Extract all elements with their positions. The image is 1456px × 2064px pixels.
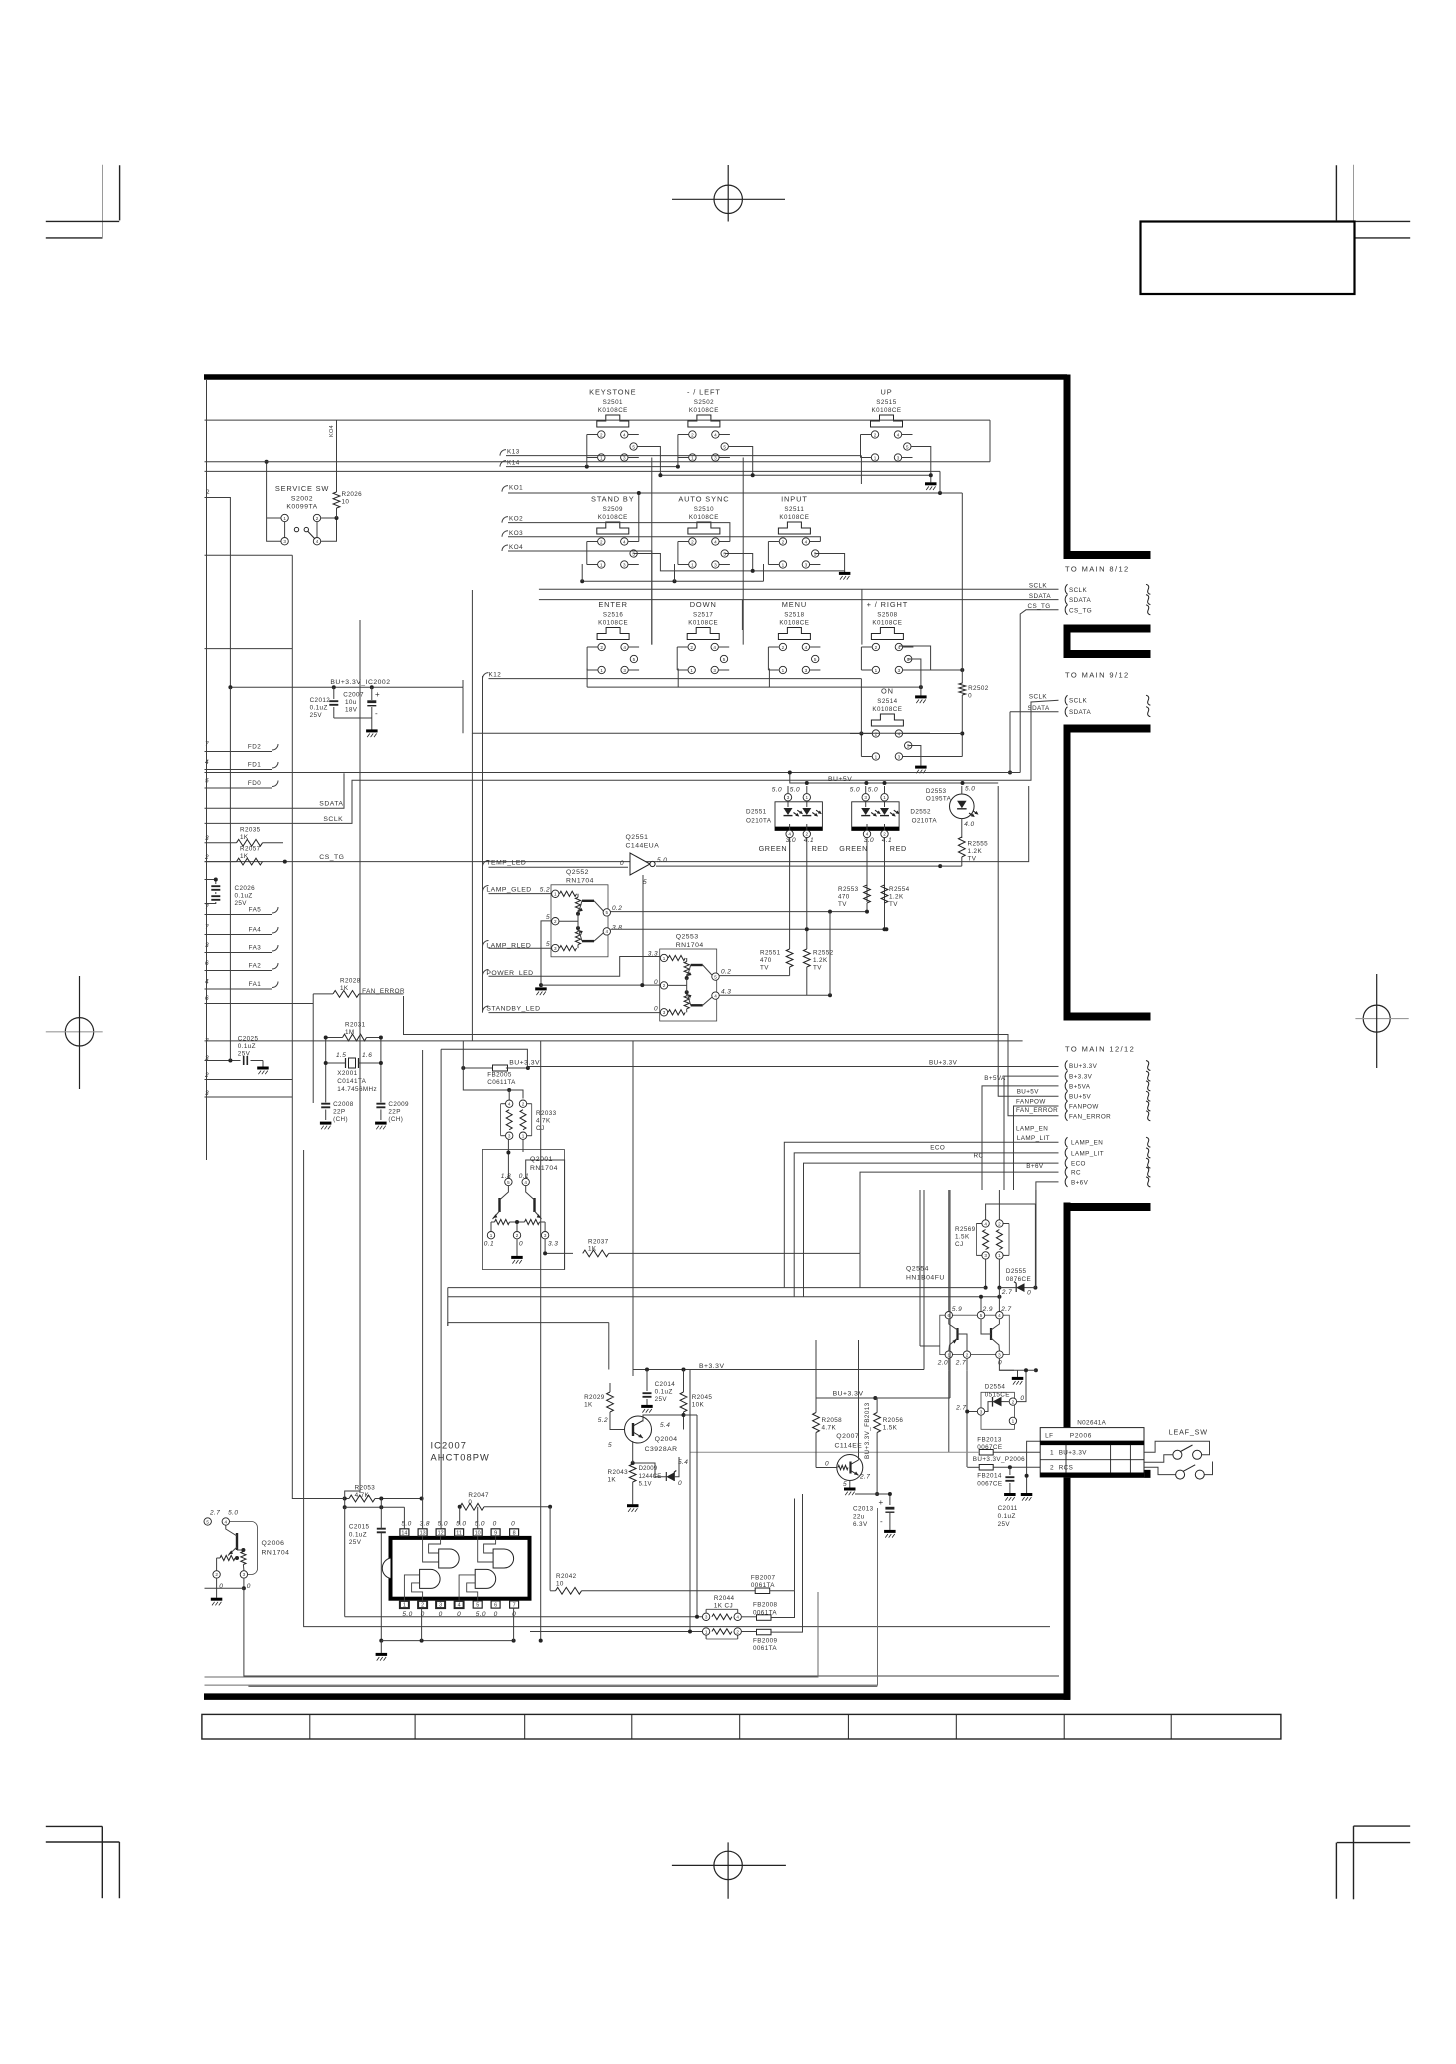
svg-text:FA3: FA3 — [249, 945, 262, 952]
svg-text:Q2554: Q2554 — [906, 1266, 929, 1273]
svg-text:0.1: 0.1 — [484, 1241, 494, 1248]
resistor R2028 FAN_ERROR — [313, 978, 403, 998]
svg-text:2: 2 — [600, 432, 603, 437]
svg-text:Q2007: Q2007 — [836, 1433, 859, 1440]
svg-text:K0108CE: K0108CE — [872, 407, 902, 414]
svg-text:4: 4 — [623, 645, 626, 650]
svg-text:S2517: S2517 — [693, 612, 713, 619]
wire mid verticals — [608, 1323, 610, 1370]
svg-text:2: 2 — [600, 539, 603, 544]
wire ECO to 12/12 — [804, 1163, 1059, 1297]
net TEMP_LED — [483, 859, 629, 867]
svg-text:7: 7 — [513, 1603, 516, 1609]
wire K14 row — [506, 466, 678, 468]
svg-text:0061TA: 0061TA — [753, 1645, 777, 1652]
wire keystone left column down — [586, 458, 588, 467]
svg-text:3: 3 — [243, 1572, 246, 1577]
net hook KO3 — [502, 531, 508, 537]
svg-text:2: 2 — [1012, 1399, 1015, 1404]
net STANDBY_LED — [483, 1006, 661, 1013]
wire b33 to right — [923, 1190, 925, 1370]
wire Q2552 pin4 out — [611, 928, 887, 930]
capacitor C2025 — [205, 1036, 264, 1067]
svg-text:25V: 25V — [235, 900, 248, 907]
svg-text:5.2: 5.2 — [540, 887, 550, 894]
schematic border top bar — [204, 374, 1067, 380]
svg-text:4: 4 — [316, 539, 319, 544]
wire Q2001 pin2 ground — [516, 1239, 518, 1256]
wire R2551 top to D2551 green — [789, 838, 791, 938]
svg-text:TV: TV — [889, 901, 898, 908]
svg-text:B+3.3V: B+3.3V — [1069, 1074, 1093, 1081]
svg-text:Q2553: Q2553 — [676, 934, 699, 941]
svg-text:4: 4 — [458, 1603, 461, 1609]
ground under INPUT switch — [839, 572, 851, 575]
wire D2552 green col — [866, 838, 868, 885]
svg-text:5: 5 — [546, 914, 550, 921]
switch S2515 UP — [861, 388, 913, 462]
svg-text:C2009: C2009 — [388, 1101, 409, 1108]
empty title box top-right — [1141, 222, 1355, 295]
svg-text:R2045: R2045 — [692, 1394, 713, 1401]
svg-text:R2552: R2552 — [813, 950, 834, 957]
svg-text:BU+5V: BU+5V — [1069, 1094, 1092, 1101]
svg-text:KO4: KO4 — [329, 425, 335, 437]
svg-text:BU+5V: BU+5V — [1017, 1089, 1040, 1096]
wire KO1 — [508, 492, 962, 494]
resistor R2554 — [881, 885, 910, 929]
wire Q2551 out to Q2553 pin2 — [541, 984, 660, 986]
svg-text:ON: ON — [881, 687, 894, 696]
svg-text:1: 1 — [782, 562, 785, 567]
svg-text:1: 1 — [283, 516, 286, 521]
svg-text:2.7: 2.7 — [859, 1474, 870, 1481]
svg-text:KO2: KO2 — [509, 516, 523, 523]
wire Q2006 pin3 down — [243, 1578, 245, 1588]
svg-text:Q2006: Q2006 — [262, 1540, 285, 1547]
svg-text:K0108CE: K0108CE — [598, 407, 628, 414]
wire column left-down — [742, 458, 744, 645]
svg-text:4: 4 — [805, 645, 808, 650]
wire SDATA bus from left — [205, 773, 345, 808]
svg-text:5.0: 5.0 — [772, 787, 782, 794]
capacitor C2026 — [205, 878, 256, 908]
svg-text:4: 4 — [714, 993, 717, 998]
svg-text:FA1: FA1 — [249, 981, 262, 988]
ferrite bead FB2005 — [461, 1065, 530, 1071]
svg-text:RN1704: RN1704 — [566, 878, 594, 885]
wire verticals above Q2007 — [815, 1340, 817, 1398]
svg-text:+: + — [879, 1498, 884, 1507]
svg-text:4: 4 — [736, 1615, 739, 1620]
svg-text:1K: 1K — [584, 1402, 593, 1409]
svg-text:3: 3 — [980, 1409, 983, 1414]
svg-text:RN1704: RN1704 — [530, 1165, 558, 1172]
svg-text:SCLK: SCLK — [1069, 698, 1087, 705]
svg-text:2.0: 2.0 — [937, 1360, 948, 1367]
wire ON pin2 left — [850, 733, 861, 735]
wire SCLK long line to 8/12 — [539, 588, 1059, 590]
svg-text:10: 10 — [475, 1531, 481, 1537]
capacitor C2014 — [643, 1370, 652, 1406]
capacitor C2012 — [329, 687, 338, 718]
svg-text:4: 4 — [866, 832, 869, 837]
svg-text:SCLK: SCLK — [1029, 693, 1047, 700]
svg-text:FAN_ERROR: FAN_ERROR — [362, 988, 405, 995]
svg-text:4: 4 — [623, 539, 626, 544]
net hook K14 — [500, 461, 506, 467]
wire horizontal feeds lower — [448, 1287, 785, 1289]
wire BU+3.3V loop corner — [441, 1049, 527, 1068]
wire R2053 rail down — [344, 1499, 346, 1508]
wire B+6V vertical — [1035, 1190, 1037, 1288]
wire Q2004 collector to R2045 — [643, 1415, 684, 1422]
svg-text:LF: LF — [1045, 1433, 1053, 1440]
switch S2510 AUTO SYNC — [678, 495, 730, 569]
svg-text:FANPOW: FANPOW — [1069, 1104, 1099, 1111]
wire Q2554 row — [784, 1287, 985, 1289]
svg-text:1: 1 — [806, 795, 809, 800]
resistor R2047 — [458, 1492, 552, 1510]
svg-text:S2515: S2515 — [876, 399, 896, 406]
svg-text:R2553: R2553 — [838, 886, 859, 893]
net hook FA5 — [272, 907, 278, 913]
svg-text:3.3: 3.3 — [548, 1241, 558, 1248]
wire B+3.3V rail — [633, 1369, 924, 1371]
wire BU+3.3V into FB2013 — [690, 1451, 979, 1453]
wire big loop around lower section — [448, 1323, 609, 1326]
svg-text:K0108CE: K0108CE — [689, 514, 719, 521]
svg-text:C2007: C2007 — [343, 691, 364, 698]
wire CS_TG bus — [205, 786, 1029, 862]
svg-text:3: 3 — [805, 562, 808, 567]
svg-text:X2001: X2001 — [337, 1070, 357, 1077]
resistor R2551 — [760, 938, 793, 976]
svg-text:3: 3 — [898, 668, 901, 673]
page frame and registration marks — [0, 0, 1, 1]
ground under C2008 — [320, 1122, 332, 1125]
ferrite bead FB2014 — [977, 1465, 1002, 1488]
svg-text:2: 2 — [782, 539, 785, 544]
wire C2012 C2007 join to ground — [334, 718, 372, 730]
svg-text:2: 2 — [1050, 1465, 1054, 1472]
digital transistor Q2554 HN1B04FU — [906, 1266, 1009, 1359]
svg-text:1: 1 — [1012, 1419, 1015, 1424]
wire Q2006 pin2 ground — [216, 1578, 218, 1597]
registration mark top-left — [46, 165, 120, 238]
svg-text:R2028: R2028 — [340, 978, 361, 985]
svg-text:INPUT: INPUT — [781, 495, 808, 504]
net POWER_LED — [483, 957, 661, 977]
svg-text:C0141TA: C0141TA — [337, 1078, 366, 1085]
switch S2501 KEYSTONE — [587, 388, 639, 462]
wire B+6V to 12/12 — [1036, 1182, 1059, 1288]
svg-text:5: 5 — [714, 974, 717, 979]
svg-text:D2551: D2551 — [746, 809, 767, 816]
svg-text:R2057: R2057 — [240, 846, 261, 853]
svg-text:C3928AR: C3928AR — [645, 1446, 678, 1453]
ground under C2015 — [376, 1653, 388, 1656]
svg-text:LAMP_EN: LAMP_EN — [1071, 1140, 1103, 1147]
led package D2552 — [852, 786, 900, 912]
svg-text:2: 2 — [554, 919, 557, 924]
svg-text:RN1704: RN1704 — [676, 942, 704, 949]
svg-text:0.1uZ: 0.1uZ — [998, 1513, 1016, 1520]
svg-text:2: 2 — [421, 1603, 424, 1609]
svg-text:ECO: ECO — [1071, 1161, 1086, 1168]
ground Q2554 — [1012, 1377, 1024, 1380]
wire top-left horizontal k04 — [205, 419, 991, 421]
svg-text:D2553: D2553 — [926, 788, 947, 795]
wire left box edge — [205, 554, 293, 556]
wire ON pin4 to R2502 bottom — [903, 733, 962, 735]
wire corner x472 to right — [472, 590, 930, 733]
svg-text:2: 2 — [806, 832, 809, 837]
svg-text:11: 11 — [456, 1531, 462, 1537]
wire long vertical x303 — [304, 1150, 1050, 1627]
svg-text:4: 4 — [623, 432, 626, 437]
transistor Q2007 C114EE — [816, 1433, 870, 1488]
wire SDATA long line to 8/12 — [539, 599, 1059, 601]
svg-text:TV: TV — [760, 965, 769, 972]
svg-text:0: 0 — [998, 1360, 1002, 1367]
svg-text:25V: 25V — [998, 1521, 1011, 1528]
svg-text:B+6V: B+6V — [1026, 1163, 1044, 1170]
svg-text:Q2551: Q2551 — [626, 834, 649, 841]
svg-text:0: 0 — [247, 1583, 251, 1590]
svg-text:4.3: 4.3 — [721, 989, 731, 996]
svg-text:0: 0 — [1027, 1290, 1031, 1297]
wire bends lower left — [292, 1493, 344, 1499]
svg-text:5: 5 — [643, 879, 647, 886]
wire up pin5 to ground — [911, 447, 931, 483]
svg-text:0: 0 — [678, 1480, 682, 1487]
IC2007 AHCT08PW body — [382, 1538, 529, 1599]
wire R2056 down to C2013 node — [876, 1433, 878, 1495]
wire left pin5 to bus — [729, 447, 753, 476]
ferrite bead FB2009 — [742, 1494, 803, 1652]
svg-text:+ / RIGHT: + / RIGHT — [867, 600, 909, 609]
svg-text:GREEN: GREEN — [759, 844, 788, 853]
net hook FA4 — [272, 927, 278, 933]
wire ON pin5 to ground — [908, 746, 921, 766]
svg-text:22P: 22P — [333, 1109, 345, 1116]
IC2007 top pins 14-8 — [400, 1529, 519, 1537]
svg-text:K0108CE: K0108CE — [872, 620, 902, 627]
wire left stub y1097 — [205, 1096, 293, 1098]
svg-text:1.2K: 1.2K — [813, 957, 828, 964]
IC2007 gate D — [459, 1569, 496, 1601]
svg-text:5.0: 5.0 — [868, 787, 878, 794]
wire upper row to matrix — [205, 461, 991, 463]
schematic border right side with connector openings — [1064, 375, 1151, 1700]
svg-text:CS_TG: CS_TG — [1069, 607, 1092, 614]
svg-text:3: 3 — [205, 942, 209, 949]
svg-text:3: 3 — [998, 1352, 1001, 1357]
wire service sw pin2-R2026 — [321, 517, 337, 519]
svg-text:10u: 10u — [345, 699, 357, 706]
ground right of C2025 — [257, 1067, 269, 1070]
wire Q2001 pin4 input — [526, 1160, 565, 1270]
svg-text:5: 5 — [633, 657, 636, 662]
ground under C2007 — [366, 729, 378, 732]
wire crystal left node — [325, 1038, 327, 1103]
wire pins top verticals — [403, 1507, 405, 1529]
connector TO MAIN 12/12 lamp pins — [1065, 1137, 1150, 1187]
svg-text:BU+5V: BU+5V — [828, 776, 852, 783]
wire into R2044 pin3 — [345, 1616, 702, 1618]
svg-text:10: 10 — [342, 499, 350, 506]
wire ON left column to bus — [860, 679, 862, 734]
svg-text:-: - — [375, 709, 378, 718]
wire service sw pin4 loop — [321, 518, 337, 541]
svg-text:0.1uZ: 0.1uZ — [238, 1043, 256, 1050]
svg-text:5.0: 5.0 — [401, 1521, 411, 1528]
resistor R2057 — [205, 846, 263, 866]
svg-text:O195TA: O195TA — [926, 796, 952, 803]
svg-text:3: 3 — [713, 668, 716, 673]
wire R2033 to Q2001 — [507, 1140, 509, 1178]
svg-text:2.7: 2.7 — [955, 1360, 966, 1367]
zener diode D2009 — [631, 1457, 689, 1488]
registration mark bottom-left — [46, 1826, 120, 1898]
wire Q2551 emitter down — [642, 875, 644, 985]
svg-text:MENU: MENU — [782, 600, 807, 609]
wire SCLK bus from left — [205, 700, 1059, 823]
left bus verticals — [229, 687, 231, 1060]
wire long vertical right of IC2007 — [540, 1041, 542, 1641]
net hook KO2 — [502, 517, 508, 523]
svg-text:BU+3.3V_P2006: BU+3.3V_P2006 — [973, 1456, 1025, 1463]
svg-text:ECO: ECO — [930, 1144, 945, 1151]
svg-text:FB2013: FB2013 — [977, 1437, 1002, 1444]
svg-text:1: 1 — [600, 668, 603, 673]
wire KO4 — [508, 551, 652, 645]
net hook FD0 — [272, 781, 278, 787]
svg-text:4: 4 — [713, 645, 716, 650]
svg-text:4: 4 — [898, 731, 901, 736]
svg-text:B+5VA: B+5VA — [1069, 1083, 1091, 1090]
wire R2569 bottoms down — [985, 1259, 987, 1287]
svg-text:TO MAIN 12/12: TO MAIN 12/12 — [1065, 1045, 1135, 1054]
resistor R2043 — [608, 1464, 637, 1504]
svg-text:TV: TV — [838, 901, 847, 908]
svg-text:0: 0 — [219, 1583, 223, 1590]
svg-text:5.0: 5.0 — [456, 1521, 466, 1528]
capacitor C2007 electrolytic — [367, 687, 380, 718]
svg-text:FA4: FA4 — [249, 927, 262, 934]
wire FB2007 up right — [794, 1499, 796, 1591]
svg-text:BU+3.3V: BU+3.3V — [1069, 1063, 1098, 1070]
svg-text:5: 5 — [723, 657, 726, 662]
digital transistor Q2553 RN1704 — [660, 934, 720, 1022]
svg-text:5: 5 — [632, 444, 635, 449]
svg-text:S2501: S2501 — [603, 399, 623, 406]
svg-text:CS_TG: CS_TG — [319, 854, 344, 861]
svg-text:K0108CE: K0108CE — [779, 514, 809, 521]
switch S2511 INPUT — [768, 495, 820, 569]
svg-text:3: 3 — [663, 1010, 666, 1015]
wire Q2553 pin4 out — [720, 994, 831, 996]
ferrite bead FB2013 — [977, 1437, 1002, 1456]
ground under R2043 — [627, 1504, 639, 1507]
svg-text:25V: 25V — [349, 1539, 362, 1546]
net hook FA1 — [272, 982, 278, 988]
svg-text:O210TA: O210TA — [912, 818, 938, 825]
wire matrix column stub — [861, 589, 863, 644]
wire keystone pin5 to bus — [638, 447, 661, 476]
svg-text:3: 3 — [554, 946, 557, 951]
svg-text:3: 3 — [705, 1615, 708, 1620]
registration mark top-center — [672, 165, 785, 222]
svg-text:0.1: 0.1 — [519, 1173, 529, 1180]
svg-text:K0108CE: K0108CE — [779, 620, 809, 627]
svg-text:5.1V: 5.1V — [639, 1482, 652, 1488]
svg-text:FB2007: FB2007 — [751, 1574, 776, 1581]
wire crystal right node — [380, 1038, 382, 1103]
svg-text:1: 1 — [522, 1134, 525, 1139]
svg-text:4: 4 — [714, 539, 717, 544]
svg-text:BU+3.3V: BU+3.3V — [509, 1060, 540, 1067]
svg-text:5: 5 — [608, 1442, 612, 1449]
svg-text:1.6: 1.6 — [362, 1052, 372, 1059]
wire into R2044 pin1 — [530, 1631, 702, 1633]
svg-text:5: 5 — [843, 1481, 847, 1488]
svg-text:2: 2 — [875, 731, 878, 736]
svg-text:RCS: RCS — [1059, 1465, 1074, 1472]
wire BU+5V rail — [788, 771, 998, 786]
svg-text:1: 1 — [663, 956, 666, 961]
svg-text:14.7456MHz: 14.7456MHz — [337, 1086, 377, 1093]
svg-text:10K: 10K — [692, 1402, 705, 1409]
svg-text:K0108CE: K0108CE — [598, 620, 628, 627]
wire R2569 tops — [986, 1204, 1036, 1220]
connector P2006 — [1040, 1428, 1144, 1477]
svg-text:B+3.3V: B+3.3V — [699, 1363, 725, 1370]
svg-text:0067CE: 0067CE — [977, 1480, 1002, 1487]
svg-text:R2058: R2058 — [822, 1417, 843, 1424]
resistor R2045 — [680, 1370, 712, 1430]
svg-text:0.1uZ: 0.1uZ — [310, 705, 328, 712]
svg-text:R2056: R2056 — [883, 1417, 904, 1424]
svg-text:3.3: 3.3 — [648, 951, 658, 958]
svg-text:KO3: KO3 — [509, 530, 523, 537]
svg-text:2.9: 2.9 — [982, 1306, 993, 1313]
svg-text:1: 1 — [875, 754, 878, 759]
svg-text:BU+3.3V: BU+3.3V — [929, 1059, 958, 1066]
wire Q2552 pin5 out — [611, 911, 867, 913]
wire LAMP_LIT to 12/12 — [794, 1153, 1058, 1297]
wire Q2004 collector top — [646, 1370, 648, 1373]
wire KO3 — [508, 537, 820, 542]
switch S2516 ENTER — [587, 600, 639, 674]
svg-text:5: 5 — [507, 1180, 510, 1185]
svg-text:2.7: 2.7 — [1001, 1289, 1012, 1296]
svg-text:1.8: 1.8 — [501, 1173, 511, 1180]
svg-text:KO4: KO4 — [509, 544, 523, 551]
svg-text:1: 1 — [705, 1629, 708, 1634]
svg-text:0: 0 — [519, 1241, 523, 1248]
svg-text:R2555: R2555 — [968, 841, 989, 848]
svg-text:3.8: 3.8 — [612, 925, 622, 932]
svg-text:7: 7 — [205, 1038, 209, 1045]
transistor Q2004 C3928AR — [610, 1416, 652, 1443]
wire far-left vertical — [440, 1049, 442, 1524]
svg-text:3: 3 — [897, 455, 900, 460]
wire vertical x948 down — [948, 1370, 950, 1452]
svg-text:C2011: C2011 — [998, 1505, 1018, 1512]
svg-text:5.2: 5.2 — [598, 1417, 608, 1424]
